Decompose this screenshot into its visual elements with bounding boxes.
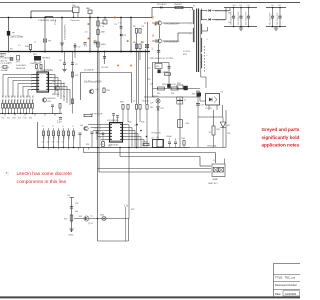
svg-text:TH: TH (12, 33, 15, 35)
svg-text:C51: C51 (75, 203, 78, 205)
capacitor C21 (79, 133, 82, 148)
svg-text:R: R (52, 126, 54, 128)
svg-text:R66: R66 (217, 129, 220, 131)
wire xfmr top to caps (193, 8, 202, 11)
svg-text:7: 7 (54, 90, 55, 92)
label under gbus (2, 118, 33, 120)
svg-text:SBR10U45: SBR10U45 (215, 20, 226, 22)
wire sec ctrl v2 (179, 98, 181, 148)
svg-text:L2: L2 (34, 42, 37, 44)
svg-text:BSS126: BSS126 (48, 98, 57, 100)
svg-text:1-4: 1-4 (84, 46, 88, 48)
label res row ticks (3, 100, 33, 104)
wire net C down3 (147, 22, 149, 104)
capacitor C16 (168, 67, 171, 69)
svg-text:560K: 560K (101, 44, 107, 46)
svg-text:C42 470uF/25V: C42 470uF/25V (277, 12, 279, 25)
resistor R2 560K (97, 30, 106, 35)
labels cap bank top (232, 5, 282, 7)
thermistor RT1 (43, 17, 51, 53)
resistor R10 inrush (25, 45, 32, 53)
label fb (207, 144, 217, 147)
svg-text:TPS2514A: TPS2514A (207, 144, 217, 147)
capacitor C11 (157, 49, 160, 63)
label mid caps (84, 44, 100, 48)
svg-text:T1: T1 (193, 6, 196, 8)
svg-text:Ω: Ω (126, 205, 128, 208)
thermistor TH1 stack (70, 5, 80, 22)
svg-text:CX2 0.1u: CX2 0.1u (1, 67, 11, 69)
wire sec out 2 (201, 19, 207, 21)
resistor R19 (72, 99, 74, 104)
label u1 pins R (54, 75, 56, 92)
wire AC line top (0, 17, 152, 19)
svg-text:D5 1N4148: D5 1N4148 (84, 70, 94, 72)
op-amp U5 opto PC123 (206, 94, 220, 110)
label sec wind (183, 51, 190, 56)
blob Cp (167, 84, 170, 88)
transformer T1 secondary winding (201, 10, 202, 68)
svg-text:7: 7 (207, 21, 208, 23)
svg-text:Q7 L5: Q7 L5 (88, 223, 93, 225)
label snub extra (147, 68, 174, 95)
wire sec ctrl v3 (197, 96, 199, 148)
svg-text:R38: R38 (120, 102, 123, 104)
svg-text:R52: R52 (108, 146, 111, 148)
wire jack pair 2 (99, 148, 211, 173)
svg-text:VR1: VR1 (8, 63, 13, 65)
resistor R38 (120, 102, 124, 123)
svg-text:R62: R62 (182, 138, 187, 140)
label u1 pins L (31, 75, 32, 92)
diode D22 (208, 18, 225, 21)
svg-text:2: 2 (100, 128, 101, 130)
svg-text:R5: R5 (133, 26, 137, 28)
svg-text:C41: C41 (278, 5, 281, 7)
svg-text:GND 16.7: GND 16.7 (208, 183, 219, 185)
capacitor C32 100uF (174, 139, 177, 148)
svg-text:C14 104: C14 104 (101, 67, 108, 69)
svg-text:10uF(Axxx)/400V: 10uF(Axxx)/400V (84, 81, 102, 84)
wire q5 to xfmr (163, 22, 193, 24)
svg-text:D31: D31 (161, 108, 164, 110)
svg-text:TITLE:: TITLE: (275, 276, 283, 280)
diode D3 (139, 26, 145, 33)
resistor R66 (209, 126, 216, 135)
capacitor C22 (91, 132, 94, 148)
capacitor C32 1000uF (238, 7, 243, 28)
svg-text:2/100: 2/100 (94, 44, 100, 46)
svg-text:1n: 1n (63, 96, 65, 98)
svg-text:2M2: 2M2 (101, 32, 106, 34)
ground gnd3 (69, 229, 74, 237)
svg-text:1uF: 1uF (150, 103, 154, 105)
wire cap bank bot 1 (224, 26, 257, 28)
svg-text:C1: C1 (18, 45, 21, 47)
label u2 pins (100, 125, 101, 142)
capacitor C33 (196, 104, 204, 107)
svg-text:C 1u: C 1u (100, 26, 104, 28)
svg-text:R25: R25 (24, 118, 27, 120)
svg-text:C33: C33 (201, 105, 204, 107)
svg-text:R72: R72 (131, 209, 134, 211)
svg-text:2.2n: 2.2n (57, 122, 62, 124)
diode D4 (139, 42, 145, 49)
svg-text:STP20NM60FP: STP20NM60FP (164, 42, 180, 44)
transistor Q2 BSS126 (42, 98, 56, 103)
svg-text:C33 1000uF/16V: C33 1000uF/16V (245, 11, 247, 25)
svg-text:LiteOn has some discrete: LiteOn has some discrete (17, 171, 73, 177)
resistor R6 (133, 42, 138, 49)
bottom bus ticks (49, 148, 89, 150)
resistor R72 1ohm (124, 148, 129, 219)
svg-text:R65: R65 (192, 94, 195, 96)
title block text (275, 276, 300, 296)
svg-text:45B: 45B (177, 83, 181, 85)
diode D2 FR107 (157, 4, 168, 9)
wire cap bank bot 2 (266, 26, 286, 28)
label U1 name (37, 70, 54, 72)
label c1b (118, 23, 121, 25)
svg-text:U5: U5 (221, 92, 224, 94)
fuse F1 (0, 54, 12, 69)
svg-text:1uF PPG3LR: 1uF PPG3LR (90, 114, 103, 116)
wire fb vert 2 (222, 105, 224, 117)
svg-text:104: 104 (52, 142, 55, 144)
wire sec lower corner (202, 27, 208, 31)
svg-text:10uF/400V: 10uF/400V (16, 65, 27, 67)
svg-text:PNP4R7: PNP4R7 (174, 4, 183, 6)
svg-text:R15 10K: R15 10K (52, 94, 60, 96)
svg-text:8: 8 (54, 87, 55, 89)
node marker orange mid (127, 40, 129, 42)
svg-text:4: 4 (100, 134, 101, 136)
capacitor CY1 vertical (61, 17, 63, 43)
wire aux top (152, 8, 193, 18)
transformer T1 core (197, 9, 199, 73)
resistor R65 (192, 91, 199, 96)
label q1 area (52, 81, 65, 98)
svg-text:104: 104 (47, 142, 50, 144)
label tl431 extra (217, 129, 231, 135)
svg-text:GBU806: GBU806 (42, 58, 51, 60)
svg-text:2A SLOW: 2A SLOW (16, 67, 25, 70)
wire net C down1 (137, 33, 139, 104)
label xfmr pins (190, 10, 208, 57)
resistor row bodies (2, 104, 34, 114)
wire fb hline (198, 116, 223, 118)
label sec misc (150, 103, 154, 110)
capacitor C25 (102, 133, 105, 142)
wire main DC bus (0, 51, 150, 53)
svg-text:C 1: C 1 (118, 23, 121, 25)
wire vcc pair 2 (98, 52, 100, 148)
resistor R5 (133, 26, 138, 33)
resistor R56 (165, 72, 171, 76)
svg-text:R55: R55 (147, 79, 150, 81)
svg-text:AC2 N: AC2 N (1, 59, 8, 62)
resistor row2 labels (42, 132, 76, 143)
label cluster netC (133, 101, 150, 103)
svg-text:R44: R44 (128, 122, 131, 124)
wire q6 link (159, 26, 161, 38)
svg-text:AC1 L: AC1 L (1, 54, 8, 57)
resistor R1 560K (97, 17, 106, 52)
resistor stack x180 (177, 97, 187, 104)
svg-text:R26: R26 (29, 118, 32, 120)
svg-text:104: 104 (57, 142, 60, 144)
svg-text:D14: D14 (156, 66, 159, 68)
svg-text:250VAC: 250VAC (1, 69, 9, 72)
svg-text:D: D (152, 33, 154, 37)
wire jack line B (120, 148, 211, 167)
capacitor C51 (70, 207, 73, 209)
svg-text:R4: R4 (10, 49, 13, 51)
svg-text:WR03D: WR03D (152, 96, 159, 98)
label bridge (33, 54, 51, 60)
capacitor C15a (84, 43, 87, 45)
wire U2 left fan (88, 125, 106, 140)
svg-text:U4: U4 (156, 137, 159, 139)
node VCC stub (68, 195, 75, 232)
svg-text:5: 5 (207, 55, 208, 57)
connector J1 DC jack (208, 159, 225, 185)
resistor R18 (59, 104, 61, 114)
capacitor CX1 3uF/275Vac (7, 31, 24, 39)
svg-text:1: 1 (100, 125, 101, 127)
label jack j1 (213, 160, 216, 162)
svg-text:1uF: 1uF (150, 84, 154, 86)
label cy2 (55, 20, 57, 25)
wire top frame line (0, 2, 300, 4)
svg-text:D21: D21 (228, 13, 231, 15)
transistor Q1 (55, 86, 65, 91)
wire ground bus (0, 113, 62, 114)
svg-text:Thermistor: Thermistor (70, 19, 80, 22)
svg-text:C26: C26 (100, 144, 103, 146)
wire U1 left fan (3, 75, 37, 98)
resistor R41 (135, 105, 137, 110)
label LF1 value (38, 19, 57, 22)
wire q6 to xfmr (163, 33, 193, 41)
svg-text:1: 1 (151, 46, 153, 50)
wire U1 right fan (53, 75, 71, 106)
node marker B (141, 40, 143, 44)
resistor R61 (142, 142, 149, 146)
resistor R43 (146, 105, 148, 110)
svg-text:C36: C36 (227, 133, 230, 135)
ground earth symbol (60, 43, 64, 52)
node marker C (144, 21, 146, 25)
svg-text:R53: R53 (157, 93, 160, 95)
svg-text:+5V: +5V (271, 5, 275, 7)
diode D21 (208, 9, 229, 12)
capacitor C31 1000uF (230, 7, 235, 28)
capacitor C41 470uF (269, 7, 274, 28)
label jp area (16, 65, 27, 70)
svg-text:R8: R8 (34, 62, 36, 64)
svg-text:6: 6 (31, 90, 32, 92)
wire U2 top pins (112, 114, 119, 123)
svg-text:TH1: TH1 (72, 5, 76, 7)
svg-text:1: 1 (190, 10, 191, 12)
connector JP1 (16, 56, 21, 64)
label bot cluster (64, 203, 93, 225)
svg-text:D2 FR107: D2 FR107 (157, 4, 168, 6)
svg-text:5: 5 (100, 137, 101, 139)
label u2 right labels (128, 122, 144, 128)
ground gnd1 (239, 27, 243, 31)
svg-text:STR4W40F GMLA: STR4W40F GMLA (38, 19, 57, 22)
svg-text:U2 SN1034: U2 SN1034 (107, 120, 119, 122)
capacitor C23 (95, 128, 99, 141)
resistor R8 (34, 62, 38, 69)
svg-text:R: R (72, 126, 74, 128)
wire snub left (153, 63, 170, 98)
wire snub row2 (144, 97, 206, 101)
wire loop left (80, 73, 82, 101)
svg-text:BD1: BD1 (33, 54, 38, 56)
capacitor C9 2n2 (71, 52, 78, 114)
title block box (274, 264, 302, 298)
node marker sq1 (155, 24, 157, 26)
svg-text:R45: R45 (141, 122, 144, 124)
resistor R9 (40, 60, 45, 72)
capacitor C2 line (120, 17, 122, 53)
wire vert x90 (89, 17, 91, 53)
resistor R39 (127, 105, 129, 123)
junction dots U2 right (136, 124, 147, 138)
label U2 name (107, 120, 119, 122)
svg-text:100uF: 100uF (166, 136, 172, 138)
svg-text:C31: C31 (239, 5, 242, 7)
svg-text:significantly bold i: significantly bold i (262, 135, 301, 140)
svg-text:CM1 63R/4.7uF 1CT/1R: CM1 63R/4.7uF 1CT/1R (150, 58, 174, 60)
box U4 TPS2514 (151, 133, 163, 148)
svg-text:4: 4 (190, 34, 191, 36)
varistor VR2 (86, 7, 92, 18)
label CY1 2200pF (65, 24, 67, 40)
svg-text:560K: 560K (101, 23, 107, 25)
svg-text:8: 8 (207, 11, 208, 13)
svg-text:1: 1 (31, 75, 32, 77)
svg-text:4: 4 (31, 84, 32, 86)
wire U2 right fan (126, 125, 144, 148)
wire snub mid (168, 63, 170, 89)
svg-text:R56: R56 (165, 72, 168, 74)
svg-text:Z1: Z1 (124, 35, 127, 37)
svg-text:R51: R51 (86, 144, 89, 146)
note red left (6, 171, 73, 185)
svg-text:D: D (152, 15, 154, 19)
capacitor C13 2.2n (57, 118, 62, 124)
resistor row labels (2, 94, 34, 102)
svg-text:R22: R22 (7, 118, 10, 120)
svg-text:B: B (141, 40, 143, 44)
svg-text:R31: R31 (107, 90, 112, 92)
label mid parts (84, 67, 108, 72)
svg-text:C: C (144, 21, 146, 25)
svg-text:R: R (42, 126, 44, 128)
svg-text:R23: R23 (13, 118, 16, 120)
svg-text:5V: 5V (68, 195, 71, 197)
svg-text:R: R (62, 126, 64, 128)
svg-text:CY1/2200pF/Y1: CY1/2200pF/Y1 (65, 24, 67, 40)
op-amp U2 (106, 123, 127, 143)
diode D31 zener (157, 107, 164, 111)
box D14 (155, 64, 162, 69)
svg-text:1-4: 1-4 (133, 101, 137, 103)
svg-text:C32 1000uF/16V: C32 1000uF/16V (238, 11, 240, 25)
wire loop right (131, 73, 133, 104)
transistor Q6 STP20NM60FP (152, 39, 180, 44)
svg-text:TNC_xxx: TNC_xxx (285, 276, 296, 280)
svg-text:1/13/2006: 1/13/2006 (285, 292, 297, 296)
wire bottom frame line (0, 296, 300, 298)
svg-text:J1: J1 (213, 160, 216, 162)
wire vcc pair 1 (97, 52, 99, 148)
svg-text:1K: 1K (209, 132, 212, 134)
svg-text:104: 104 (75, 211, 78, 213)
svg-text:3uF/275Vac: 3uF/275Vac (11, 36, 25, 39)
label near 1ohm (131, 209, 134, 211)
svg-text:6: 6 (207, 39, 208, 41)
wire winding bottom down (201, 68, 206, 88)
op-amp U1 ICE2QS03 (32, 72, 53, 92)
resistor R63 (178, 120, 189, 128)
wire jack line A (84, 148, 216, 164)
wire fb vert 1 (213, 110, 215, 148)
svg-text:R24: R24 (18, 118, 21, 120)
svg-text:C9: C9 (75, 64, 77, 66)
diode bridge BD1 (30, 56, 41, 65)
svg-text:R63: R63 (186, 123, 189, 125)
svg-text:10K: 10K (79, 216, 83, 218)
transistor Q7 (79, 216, 94, 222)
svg-text:SR24 TRS21.06: SR24 TRS21.06 (162, 84, 176, 86)
svg-text:R21: R21 (2, 118, 5, 120)
ground ticks (5, 114, 55, 116)
zener D1 (120, 34, 127, 37)
capacitor C2 (114, 24, 122, 28)
wire cap bank top 2 (266, 7, 286, 9)
svg-text:C1: C1 (184, 100, 186, 102)
svg-text:6: 6 (100, 140, 101, 142)
svg-text:components in this line: components in this line (17, 179, 67, 185)
resistor R34 PPG (84, 114, 103, 117)
wire x37 drop (37, 122, 39, 148)
junction dots on bus (8, 51, 132, 53)
svg-text:C8: C8 (63, 83, 65, 85)
resistor R57 (177, 83, 183, 89)
svg-text:VAR: VAR (86, 7, 90, 10)
varistor WR03D (152, 96, 160, 103)
label above bus 1 (10, 42, 37, 51)
wire bus right end (190, 110, 226, 148)
svg-text:Document Number: Document Number (275, 283, 297, 287)
svg-text:GND: GND (69, 235, 74, 237)
svg-text:U1 ICE2QS03G: U1 ICE2QS03G (37, 70, 54, 72)
wire sec out 1 (201, 10, 207, 12)
capacitor C1 below wire (100, 17, 107, 28)
diode D15 (158, 70, 165, 75)
svg-text:U4: U4 (151, 137, 153, 139)
wire opto left drop (209, 105, 217, 110)
svg-text:9: 9 (54, 84, 55, 86)
varistor circle-x (100, 215, 106, 221)
svg-text:2: 2 (31, 78, 32, 80)
svg-text:+19V: +19V (232, 5, 237, 7)
